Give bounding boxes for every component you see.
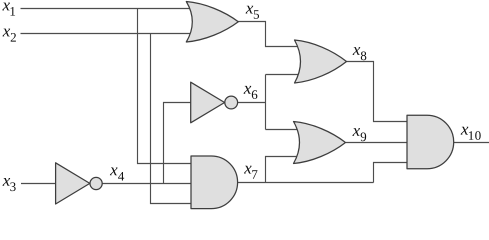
or-gate OR1 output x5 — [186, 2, 238, 43]
wire x4 branch vertical up then right to NOT x6 input — [164, 103, 192, 184]
wire x2 branch vertical down then right to AND x7 bottom input — [151, 34, 193, 204]
not-gate NOT2 bubble — [225, 96, 238, 109]
not-gate NOT2 triangle x4 to x6 — [191, 82, 225, 123]
wire x7 jog up into AND x10 bottom input — [374, 163, 409, 183]
wire x3 input to NOT gate — [21, 183, 56, 185]
and-gate AND2 output x10 — [407, 115, 454, 168]
wire x6 vertical split — [265, 75, 267, 130]
and-gate AND1 output x7 — [191, 156, 238, 209]
not-gate NOT1 triangle x3 to x4 — [56, 163, 90, 204]
not-gate NOT1 bubble — [90, 177, 102, 189]
wire x2 horizontal — [21, 33, 193, 35]
wire x6 upper branch to OR x8 lower input — [266, 74, 300, 76]
wire x10 output — [454, 142, 489, 144]
wire x5 from OR1 tip jog down into OR x8 upper input — [238, 22, 299, 47]
label x2 — [3, 29, 16, 42]
wire x1 branch vertical down then right to AND x7 top input — [138, 9, 193, 164]
wire x7 branch up to OR x9 lower input — [266, 157, 299, 183]
label x9 — [352, 128, 366, 141]
label x3 — [3, 178, 16, 191]
label x8 — [353, 47, 367, 60]
wire x8 output jog down into AND x10 top input — [346, 62, 408, 122]
label x4 — [110, 168, 124, 181]
wire x6 from bubble to vertical — [238, 102, 266, 104]
label x5 — [246, 6, 259, 19]
label x1 — [2, 3, 15, 16]
wire x9 output to AND x10 middle input — [346, 142, 408, 144]
label x7 — [244, 166, 257, 179]
label x6 — [244, 86, 258, 99]
wire x6 lower branch to OR x9 upper input — [266, 129, 299, 131]
wire x1 horizontal — [21, 8, 193, 10]
or-gate OR3 output x9 — [294, 122, 346, 164]
wire x7 output horizontal — [237, 182, 374, 184]
label x10 — [461, 127, 481, 140]
wire x4 from NOT bubble to AND x7 middle input — [102, 183, 192, 185]
or-gate OR2 output x8 — [295, 40, 347, 83]
